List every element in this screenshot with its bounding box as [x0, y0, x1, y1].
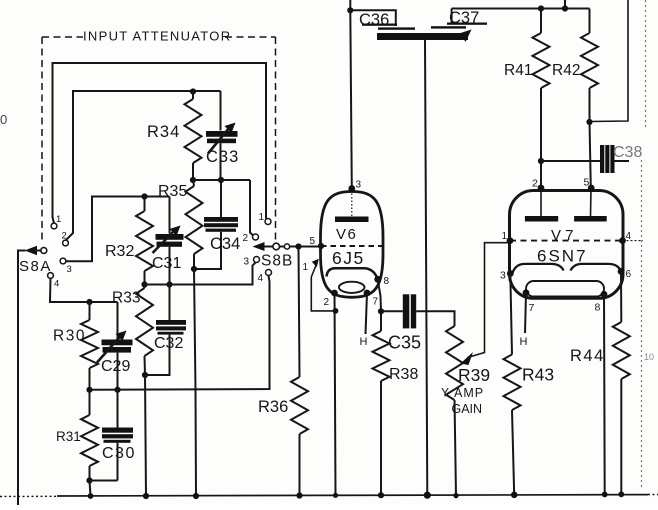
wire: S8A contact 4 to top of R30/C29 [50, 278, 118, 302]
V6 cathode [327, 268, 378, 279]
junction node P on wire B at R34 top [190, 88, 196, 94]
svg-text:AMP: AMP [454, 386, 484, 400]
junction R41 bottom / C38 left [538, 158, 544, 164]
wire node R to S8B contact 2 [250, 180, 253, 236]
wire C35 to R39 top [416, 311, 454, 326]
svg-text:2: 2 [532, 178, 538, 190]
resistor R43 (cathode) [510, 274, 512, 355]
junction R31/C30 bottom, to earth rail [86, 477, 92, 483]
svg-text:C36: C36 [359, 11, 389, 29]
svg-text:H: H [360, 336, 368, 348]
resistor R33 [136, 288, 153, 356]
wire HT feed right to R41/R42 [452, 8, 590, 10]
svg-text:1: 1 [502, 231, 508, 242]
svg-text:R31: R31 [56, 429, 81, 444]
junction R36 tap on grid wire [295, 243, 301, 249]
junction R30 top [86, 299, 92, 305]
svg-text:R41: R41 [504, 62, 532, 79]
node: R30/C29 bottom joins R31/C30 top, tapped to S8B contact 4 [86, 387, 92, 393]
V7 cathode right [571, 264, 621, 271]
V6 anode plate [335, 217, 369, 223]
V7 pin 7 heater stub [525, 293, 526, 333]
svg-text:10: 10 [644, 352, 654, 362]
svg-text:4: 4 [258, 273, 264, 284]
svg-text:8: 8 [384, 276, 390, 287]
resistor R36 (grid leak) [299, 247, 300, 378]
wire R42 bottom node to top edge line [590, 0, 629, 122]
svg-text:S8B: S8B [261, 253, 293, 270]
svg-text:C29: C29 [101, 358, 130, 375]
capacitor C32 [169, 285, 171, 321]
switch S8B contact 1 [265, 219, 271, 225]
svg-text:R43: R43 [522, 365, 554, 385]
capacitor C35 (coupling) [381, 310, 403, 312]
V6 pin 5 [318, 243, 324, 249]
svg-text:C35: C35 [388, 333, 421, 353]
wire B: S8A contact 2 to top of R34/C33 [66, 91, 221, 240]
svg-text:4: 4 [626, 231, 632, 242]
svg-text:3: 3 [356, 180, 362, 191]
junction R42 bottom [586, 119, 592, 125]
V7 pin 4 with stub [619, 237, 626, 244]
capacitor C33 (trimmer) [220, 91, 222, 131]
wire V6 pin 8 down [378, 279, 381, 311]
svg-text:R39: R39 [458, 365, 490, 385]
svg-text:6J5: 6J5 [332, 248, 365, 268]
resistor R34 [192, 92, 194, 100]
svg-text:R42: R42 [552, 62, 580, 79]
capacitor C31 (trimmer) [169, 197, 171, 234]
switch S8B contact 4 [266, 270, 272, 276]
svg-text:3: 3 [500, 270, 506, 282]
svg-text:7: 7 [373, 297, 379, 308]
V7 pin 6 [618, 268, 625, 275]
dashed box INPUT ATTENUATOR (ganged switch linkage) [42, 36, 83, 38]
svg-text:GAIN: GAIN [452, 402, 483, 416]
svg-text:C33: C33 [206, 148, 239, 166]
wire HT feed left (V6 anode line) [349, 0, 351, 10]
switch S8B contact 2 [253, 234, 259, 240]
wire C36/C37 stem down to earth rail [425, 40, 427, 495]
resistor R42 (V7 anode load) [589, 9, 591, 34]
switch S8A contact 3 [60, 258, 66, 264]
svg-text:6SN7: 6SN7 [537, 247, 588, 266]
svg-text:H: H [520, 336, 528, 348]
tube V6 envelope [321, 192, 384, 298]
wire V7 pin 8 to earth rail [603, 294, 606, 494]
svg-text:C31: C31 [152, 255, 181, 272]
tube V7 envelope [510, 191, 624, 299]
svg-text:6: 6 [626, 269, 632, 280]
V7 pin 1 [507, 237, 514, 244]
capacitor C29 (trimmer) [117, 302, 119, 340]
junction R35/C34 bottom node [191, 266, 197, 272]
resistor R41 (V7 anode load) [540, 9, 542, 34]
wire S8B wiper output to V6 grid pin 5 [290, 246, 321, 248]
V6 pin 8 (cathode) [374, 276, 381, 283]
svg-text:C34: C34 [210, 235, 240, 253]
wire R33/C32 bottom to earth rail [145, 375, 146, 496]
page border (dash-dot, right edge) [645, 0, 647, 130]
svg-text:C32: C32 [154, 335, 183, 352]
wire V6 anode pin 3 riser [350, 10, 352, 188]
svg-text:R30: R30 [53, 328, 86, 345]
svg-text:2: 2 [324, 297, 330, 308]
capacitor C37 (trimmer to earth) [451, 9, 453, 25]
V7 pin 5 [588, 185, 595, 192]
junction R33/C32 bottom [142, 372, 148, 378]
resistor R35 [193, 180, 194, 186]
V7 pin 3 [507, 270, 514, 277]
capacitor C30 [117, 390, 119, 428]
svg-text:5: 5 [584, 177, 590, 189]
wire: S8A contact 3 to top of R32/C31 [66, 197, 170, 262]
svg-text:4: 4 [54, 279, 59, 290]
wire V6 pin 7 heater stub [366, 293, 368, 334]
V7 pin 2 [538, 185, 545, 192]
svg-text:S8A: S8A [19, 258, 52, 275]
resistor R30 [89, 302, 91, 320]
V6 pin 3 [348, 185, 355, 192]
switch S8A contact 1 [51, 223, 57, 229]
svg-text:R36: R36 [258, 398, 288, 416]
capacitor C34 [220, 180, 222, 217]
svg-text:V 7: V 7 [551, 227, 574, 244]
V6 pin 2 [331, 290, 338, 297]
node: R32/C31 bottom joins R33/C32 top, tapped to S8B contact 3 [141, 281, 147, 287]
capacitor C38 (cross-coupling) [541, 160, 600, 162]
svg-text:1: 1 [303, 262, 309, 273]
svg-text:3: 3 [244, 257, 250, 268]
V7 anode plates [525, 216, 558, 222]
resistor R44 (cathode) [620, 271, 622, 322]
svg-text:7: 7 [529, 302, 535, 314]
V6 grid (dashed) [321, 245, 382, 247]
wire V6 pin 1 to cathode line [311, 277, 335, 311]
switch S8B wiper arrow [253, 242, 265, 251]
svg-text:C38: C38 [613, 144, 642, 161]
V6 pin 7 [364, 290, 371, 297]
wire A: S8A contact 1 to S8B contact 1 (straight-through) [53, 63, 267, 224]
V7 pin 7 [523, 289, 530, 296]
earth rail [0, 495, 57, 497]
wire V6 pin 2 down to earth rail [335, 293, 336, 495]
svg-text:R34: R34 [147, 123, 180, 141]
svg-text:R33: R33 [112, 290, 140, 307]
svg-text:8: 8 [595, 302, 601, 314]
svg-text:V6: V6 [336, 226, 357, 243]
common moving plate of C36/C37 with adjuster arrow [377, 33, 468, 40]
svg-text:C30: C30 [102, 445, 136, 462]
svg-text:0: 0 [0, 112, 7, 127]
switch S8A contact 2 [63, 240, 69, 246]
svg-text:2: 2 [243, 233, 249, 244]
svg-text:1: 1 [56, 214, 61, 225]
svg-text:Y: Y [441, 386, 449, 400]
svg-text:5: 5 [310, 236, 316, 247]
svg-text:R35: R35 [158, 183, 187, 200]
V7 pin 8 [601, 291, 608, 298]
V7 cathode left [513, 264, 564, 273]
svg-text:R32: R32 [105, 243, 134, 260]
V7 heater loop [526, 281, 604, 297]
node R: junction of R34/C33 bottoms and R35/C34 tops [190, 177, 196, 183]
switch S8B contact 3 [254, 257, 260, 263]
svg-text:INPUT ATTENUATOR: INPUT ATTENUATOR [83, 29, 231, 44]
svg-text:R38: R38 [389, 366, 418, 383]
resistor R32 [144, 197, 146, 212]
wire R35/C34 bottom node down to earth rail [194, 269, 196, 496]
potentiometer R39 Y AMP GAIN [446, 326, 463, 400]
svg-text:1: 1 [259, 212, 265, 223]
V6 heater loop [339, 282, 365, 293]
resistor R31 [89, 390, 91, 415]
svg-text:C37: C37 [449, 9, 479, 27]
svg-text:3: 3 [67, 264, 72, 275]
resistor R38 (cathode load) [380, 311, 382, 331]
switch S8A contact 4 [48, 273, 54, 279]
earth rail junction dots [88, 493, 94, 499]
switch S8A wiper arrow [25, 246, 38, 255]
junction R32 top [141, 193, 147, 199]
V6 pin 1 grid-cap arrow [311, 265, 316, 278]
capacitor C36 (trimmer to earth) [362, 24, 397, 26]
V7 grid line (dashed) [510, 240, 623, 242]
wire Y input rising to S8A wiper [18, 251, 26, 506]
svg-text:R44: R44 [570, 347, 605, 365]
